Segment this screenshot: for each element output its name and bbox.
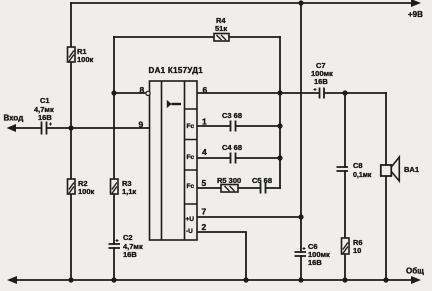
node junction gnd C6 (298, 277, 303, 282)
svg-text:0,1мк: 0,1мк (353, 172, 372, 179)
capacitor C3 (231, 121, 236, 132)
wire bottom ground rail (12, 279, 416, 281)
svg-text:Fс: Fс (187, 154, 195, 161)
arrow ground right (Common) (411, 276, 421, 284)
wire C1 to pin 9 (47, 127, 150, 129)
capacitor C7 plus mark (314, 88, 317, 91)
wire left rail (R1/R2 branch) (70, 3, 72, 280)
capacitor C1 (42, 122, 47, 135)
svg-text:2: 2 (202, 222, 207, 232)
op-amp U1 inverting input circle pin 8 (146, 91, 150, 95)
node junction gnd BA1 (383, 277, 388, 282)
arrow ground left (7, 276, 17, 284)
capacitor C2 (109, 244, 121, 248)
svg-text:Общ: Общ (406, 267, 424, 276)
wire top +9V rail (71, 2, 416, 4)
svg-text:-U: -U (186, 228, 193, 235)
node junction gnd R6 (342, 277, 347, 282)
wire pin 1 to C3 (197, 125, 280, 127)
svg-text:51к: 51к (215, 24, 227, 33)
svg-text:C3 68: C3 68 (222, 111, 242, 120)
node junction C3 bus (277, 123, 282, 128)
wire pin 8 line (114, 92, 146, 94)
svg-text:16В: 16В (38, 113, 52, 122)
svg-text:DA1 К157УД1: DA1 К157УД1 (149, 66, 204, 75)
arrow +9V right (411, 0, 421, 7)
resistor R1 (68, 47, 76, 62)
svg-text:C2: C2 (123, 233, 133, 242)
node junction C7/C8 (342, 90, 347, 95)
speaker BA1 (381, 157, 400, 181)
wire R3/C2 branch vertical (113, 37, 115, 280)
op-amp U1 DA1 body (150, 81, 198, 240)
svg-text:10: 10 (353, 246, 361, 255)
svg-text:+U: +U (186, 216, 195, 223)
svg-text:R5 300: R5 300 (217, 176, 241, 185)
wire speaker vertical (385, 93, 387, 280)
svg-text:8: 8 (140, 85, 145, 95)
wire pin 2 to ground (197, 232, 246, 280)
resistor R2 (68, 179, 76, 194)
arrow input left (7, 124, 17, 132)
svg-text:C1: C1 (40, 96, 50, 105)
wire R4 right drop / correction bus (279, 37, 281, 188)
node junction gnd R1 (68, 277, 73, 282)
svg-text:+9В: +9В (408, 10, 423, 19)
svg-text:7: 7 (202, 207, 207, 217)
wire R4 feedback top (114, 36, 280, 38)
svg-text:100к: 100к (78, 187, 95, 196)
svg-text:16В: 16В (314, 77, 328, 86)
op-amp U1 amplifier triangle symbol (167, 100, 172, 108)
node junction C1/pin9 (68, 125, 73, 130)
capacitor C5 (261, 183, 266, 194)
capacitor C2 plus mark (116, 239, 119, 242)
resistor R3 (111, 179, 119, 194)
svg-text:1,1к: 1,1к (122, 187, 136, 196)
svg-text:BA1: BA1 (404, 165, 419, 174)
node junction output/R4 (277, 90, 282, 95)
svg-text:C5 68: C5 68 (252, 176, 272, 185)
svg-text:16В: 16В (308, 258, 322, 267)
svg-text:4: 4 (202, 147, 207, 157)
capacitor C1 plus mark (49, 123, 52, 126)
capacitor C6 plus mark (303, 247, 306, 250)
wire C8/R6 zobel vertical (344, 93, 346, 280)
capacitor C6 (295, 252, 307, 256)
wire pin 4 to C4 (197, 157, 280, 159)
svg-text:C4 68: C4 68 (222, 143, 242, 152)
node junction pin7 power (298, 214, 303, 219)
wire pin 7 to power rail (197, 216, 301, 218)
wire output pin 6 to C7 (197, 92, 318, 94)
node junction gnd pin2 (243, 277, 248, 282)
wire pin 5 through R5 to C5 (197, 187, 280, 189)
svg-text:9: 9 (139, 120, 144, 130)
resistor R6 (342, 238, 350, 254)
node junction top power (298, 0, 303, 5)
node junction pin8/R3 (111, 90, 116, 95)
svg-text:100к: 100к (77, 55, 94, 64)
svg-text:16В: 16В (123, 250, 137, 259)
capacitor C7 (320, 88, 325, 99)
svg-text:Вход: Вход (4, 114, 24, 123)
svg-text:5: 5 (202, 178, 207, 188)
resistor R5 (221, 185, 238, 193)
node junction gnd C2 (111, 277, 116, 282)
svg-text:C8: C8 (353, 161, 363, 170)
wire C7 to speaker corner (325, 92, 386, 94)
capacitor C4 (231, 153, 236, 164)
resistor R4 (214, 34, 229, 42)
svg-text:6: 6 (203, 85, 208, 95)
svg-text:Fс: Fс (187, 123, 195, 130)
node junction C4 bus (277, 155, 282, 160)
wire power vertical with C6 (300, 3, 302, 280)
svg-text:Fс: Fс (187, 183, 195, 190)
wire input line to C1 (11, 127, 40, 129)
capacitor C8 (337, 167, 349, 171)
svg-text:1: 1 (202, 117, 207, 127)
